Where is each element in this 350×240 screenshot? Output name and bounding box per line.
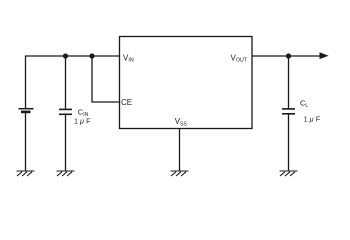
svg-text:CL: CL: [300, 99, 308, 109]
svg-text:VSS: VSS: [175, 117, 188, 127]
svg-text:1 μF: 1 μF: [304, 115, 321, 124]
svg-text:1 μF: 1 μF: [74, 117, 91, 126]
svg-text:VIN: VIN: [123, 53, 134, 63]
svg-text:CE: CE: [121, 98, 132, 107]
svg-text:VOUT: VOUT: [231, 53, 248, 63]
